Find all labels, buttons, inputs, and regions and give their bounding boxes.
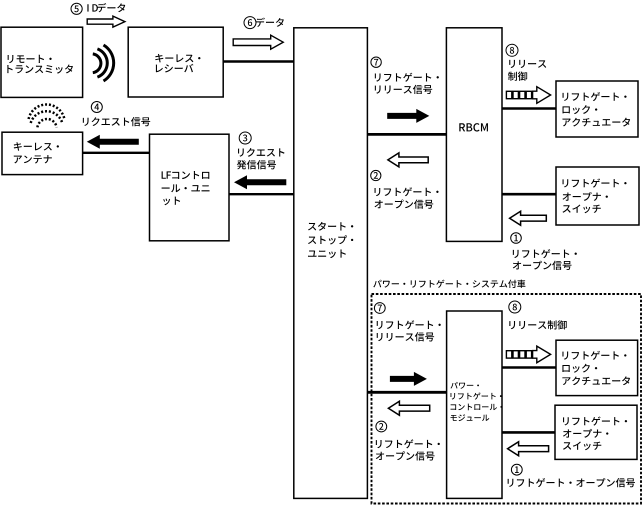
label 8 bottom: release control [509, 320, 566, 329]
label 7 bottom line 2 [377, 332, 434, 341]
label: keyless receiver line 2 [156, 64, 194, 73]
label: module line 4 [450, 414, 489, 421]
label: lock actuator bottom line 2 [562, 364, 597, 373]
label: LF control unit line 2 [162, 184, 210, 192]
label 6: data [256, 18, 284, 27]
dashed box: with power liftgate system (パワー・リフトゲート・システム付車) [372, 294, 642, 504]
label 7 top line 1 [375, 73, 439, 82]
wire: module to liftgate opener switch (bottom) [502, 431, 555, 434]
label: keyless antenna line 1 [14, 142, 59, 151]
label 1 bottom: liftgate open signal [508, 478, 635, 487]
label 5: ID data [87, 3, 125, 12]
label: LF control unit line 3 [163, 197, 180, 206]
arrow 7 bottom: liftgate release signal (solid right) [390, 372, 427, 386]
arrow 4: request signal (solid left) [87, 135, 139, 149]
wire: keyless antenna to LF control unit [83, 152, 150, 154]
icon: dashed wave arcs above keyless antenna [29, 105, 65, 128]
label: opener switch bottom line 2 [563, 429, 608, 438]
label 3 line 2: transmit signal [237, 160, 276, 169]
arrow 8 bottom: release control (segmented) [506, 346, 550, 363]
label: module line 3 [451, 404, 503, 411]
arrow 8 top: release control (segmented) [506, 87, 550, 104]
numbered node 1 (bottom) [511, 464, 522, 475]
label 1 top line 1 [513, 249, 577, 258]
box: keyless antenna (キーレス・アンテナ) [2, 132, 83, 174]
label 3 line 1: request [238, 148, 284, 157]
icon: RF wave arcs from remote transmitter [93, 45, 114, 81]
label: opener switch top line 2 [563, 192, 608, 201]
label: lock actuator top line 2 [563, 105, 598, 114]
label: keyless antenna line 2 [14, 155, 52, 163]
numbered node 7 (top) [371, 57, 381, 67]
label: lock actuator top line 1 [563, 92, 627, 101]
label: module line 2 [451, 392, 502, 399]
wire: keyless receiver to start-stop unit [223, 60, 294, 62]
numbered node 1 (top) [511, 233, 522, 244]
label: lock actuator top line 3 [563, 118, 631, 127]
arrow 1 bottom: liftgate open signal (open left) [508, 442, 549, 456]
label: LF control unit line 1 [162, 171, 210, 179]
arrow 1 top: liftgate open signal (open left) [510, 211, 547, 225]
label: keyless receiver line 1 [155, 54, 200, 63]
label: opener switch top line 3 [563, 204, 601, 213]
label 8 top line 2: control [508, 72, 527, 81]
label: opener switch bottom line 3 [563, 441, 601, 450]
label 2 bottom line 1 [376, 439, 440, 448]
arrow 2 bottom: liftgate open signal (open left) [388, 401, 429, 415]
label 7 bottom line 1 [377, 320, 441, 329]
box: liftgate opener switch (top) [556, 167, 639, 225]
numbered node 8 (top) [506, 44, 518, 56]
label: remote transmitter line 1 [8, 55, 52, 63]
box: liftgate lock actuator (bottom) [556, 340, 638, 395]
box: keyless receiver (キーレス・レシーバ) [128, 27, 223, 97]
box: LF control unit (LFコントロール・ユニット) [150, 134, 230, 241]
box: remote transmitter (リモート・トランスミッタ) [1, 27, 83, 97]
label: module line 1 [450, 382, 479, 389]
label: RBCM [459, 123, 488, 131]
arrow 6: data (outline right) [233, 35, 283, 49]
arrow 5: ID data (outline right) [87, 16, 125, 27]
numbered node 7 (bottom) [374, 303, 385, 314]
numbered node 6 [244, 17, 256, 29]
wire: start-stop unit to RBCM [367, 133, 446, 136]
wire: module to liftgate lock actuator (bottom) [502, 366, 556, 369]
numbered node 2 (bottom) [376, 421, 387, 432]
box: start-stop unit (スタート・ストップ・ユニット) [294, 28, 368, 499]
label 8 top line 1: release [509, 60, 546, 68]
label 2 top line 1 [375, 187, 439, 196]
label: opener switch top line 1 [563, 179, 627, 188]
numbered node 2 (top) [371, 170, 381, 180]
label: lock actuator bottom line 3 [562, 376, 630, 385]
label: power liftgate system section [373, 280, 525, 288]
numbered node 8 (bottom) [509, 301, 521, 313]
wire: RBCM to liftgate opener switch (top) [502, 193, 556, 196]
label: lock actuator bottom line 1 [562, 351, 626, 360]
numbered node 5 [71, 3, 82, 14]
wire: LF control unit to start-stop unit [229, 193, 294, 195]
label 7 top line 2 [375, 85, 432, 94]
arrow 2 top: liftgate open signal (open left) [388, 153, 428, 167]
arrow 7 top: liftgate release signal (solid right) [387, 109, 429, 123]
label 4: request signal [83, 117, 150, 126]
label: start-stop unit line 3 [308, 249, 346, 258]
wire: RBCM to liftgate lock actuator (top) [502, 107, 556, 110]
label 2 top line 2 [375, 199, 434, 208]
label: remote transmitter line 2 [7, 65, 73, 74]
box: liftgate opener switch (bottom) [555, 405, 637, 459]
box: RBCM [446, 28, 502, 242]
label 1 top line 2 [513, 261, 572, 270]
wire: start-stop unit to power liftgate control module [367, 391, 446, 394]
numbered node 3 [239, 132, 251, 144]
arrow 3: request transmit signal (solid left) [234, 175, 286, 189]
label 2 bottom line 2 [376, 451, 435, 460]
label: start-stop unit line 2 [308, 235, 353, 244]
numbered node 4 [91, 102, 102, 113]
box: power liftgate control module [447, 311, 502, 498]
box: liftgate lock actuator (top) [556, 81, 638, 137]
label: start-stop unit line 1 [308, 222, 353, 231]
label: opener switch bottom line 1 [563, 417, 627, 426]
